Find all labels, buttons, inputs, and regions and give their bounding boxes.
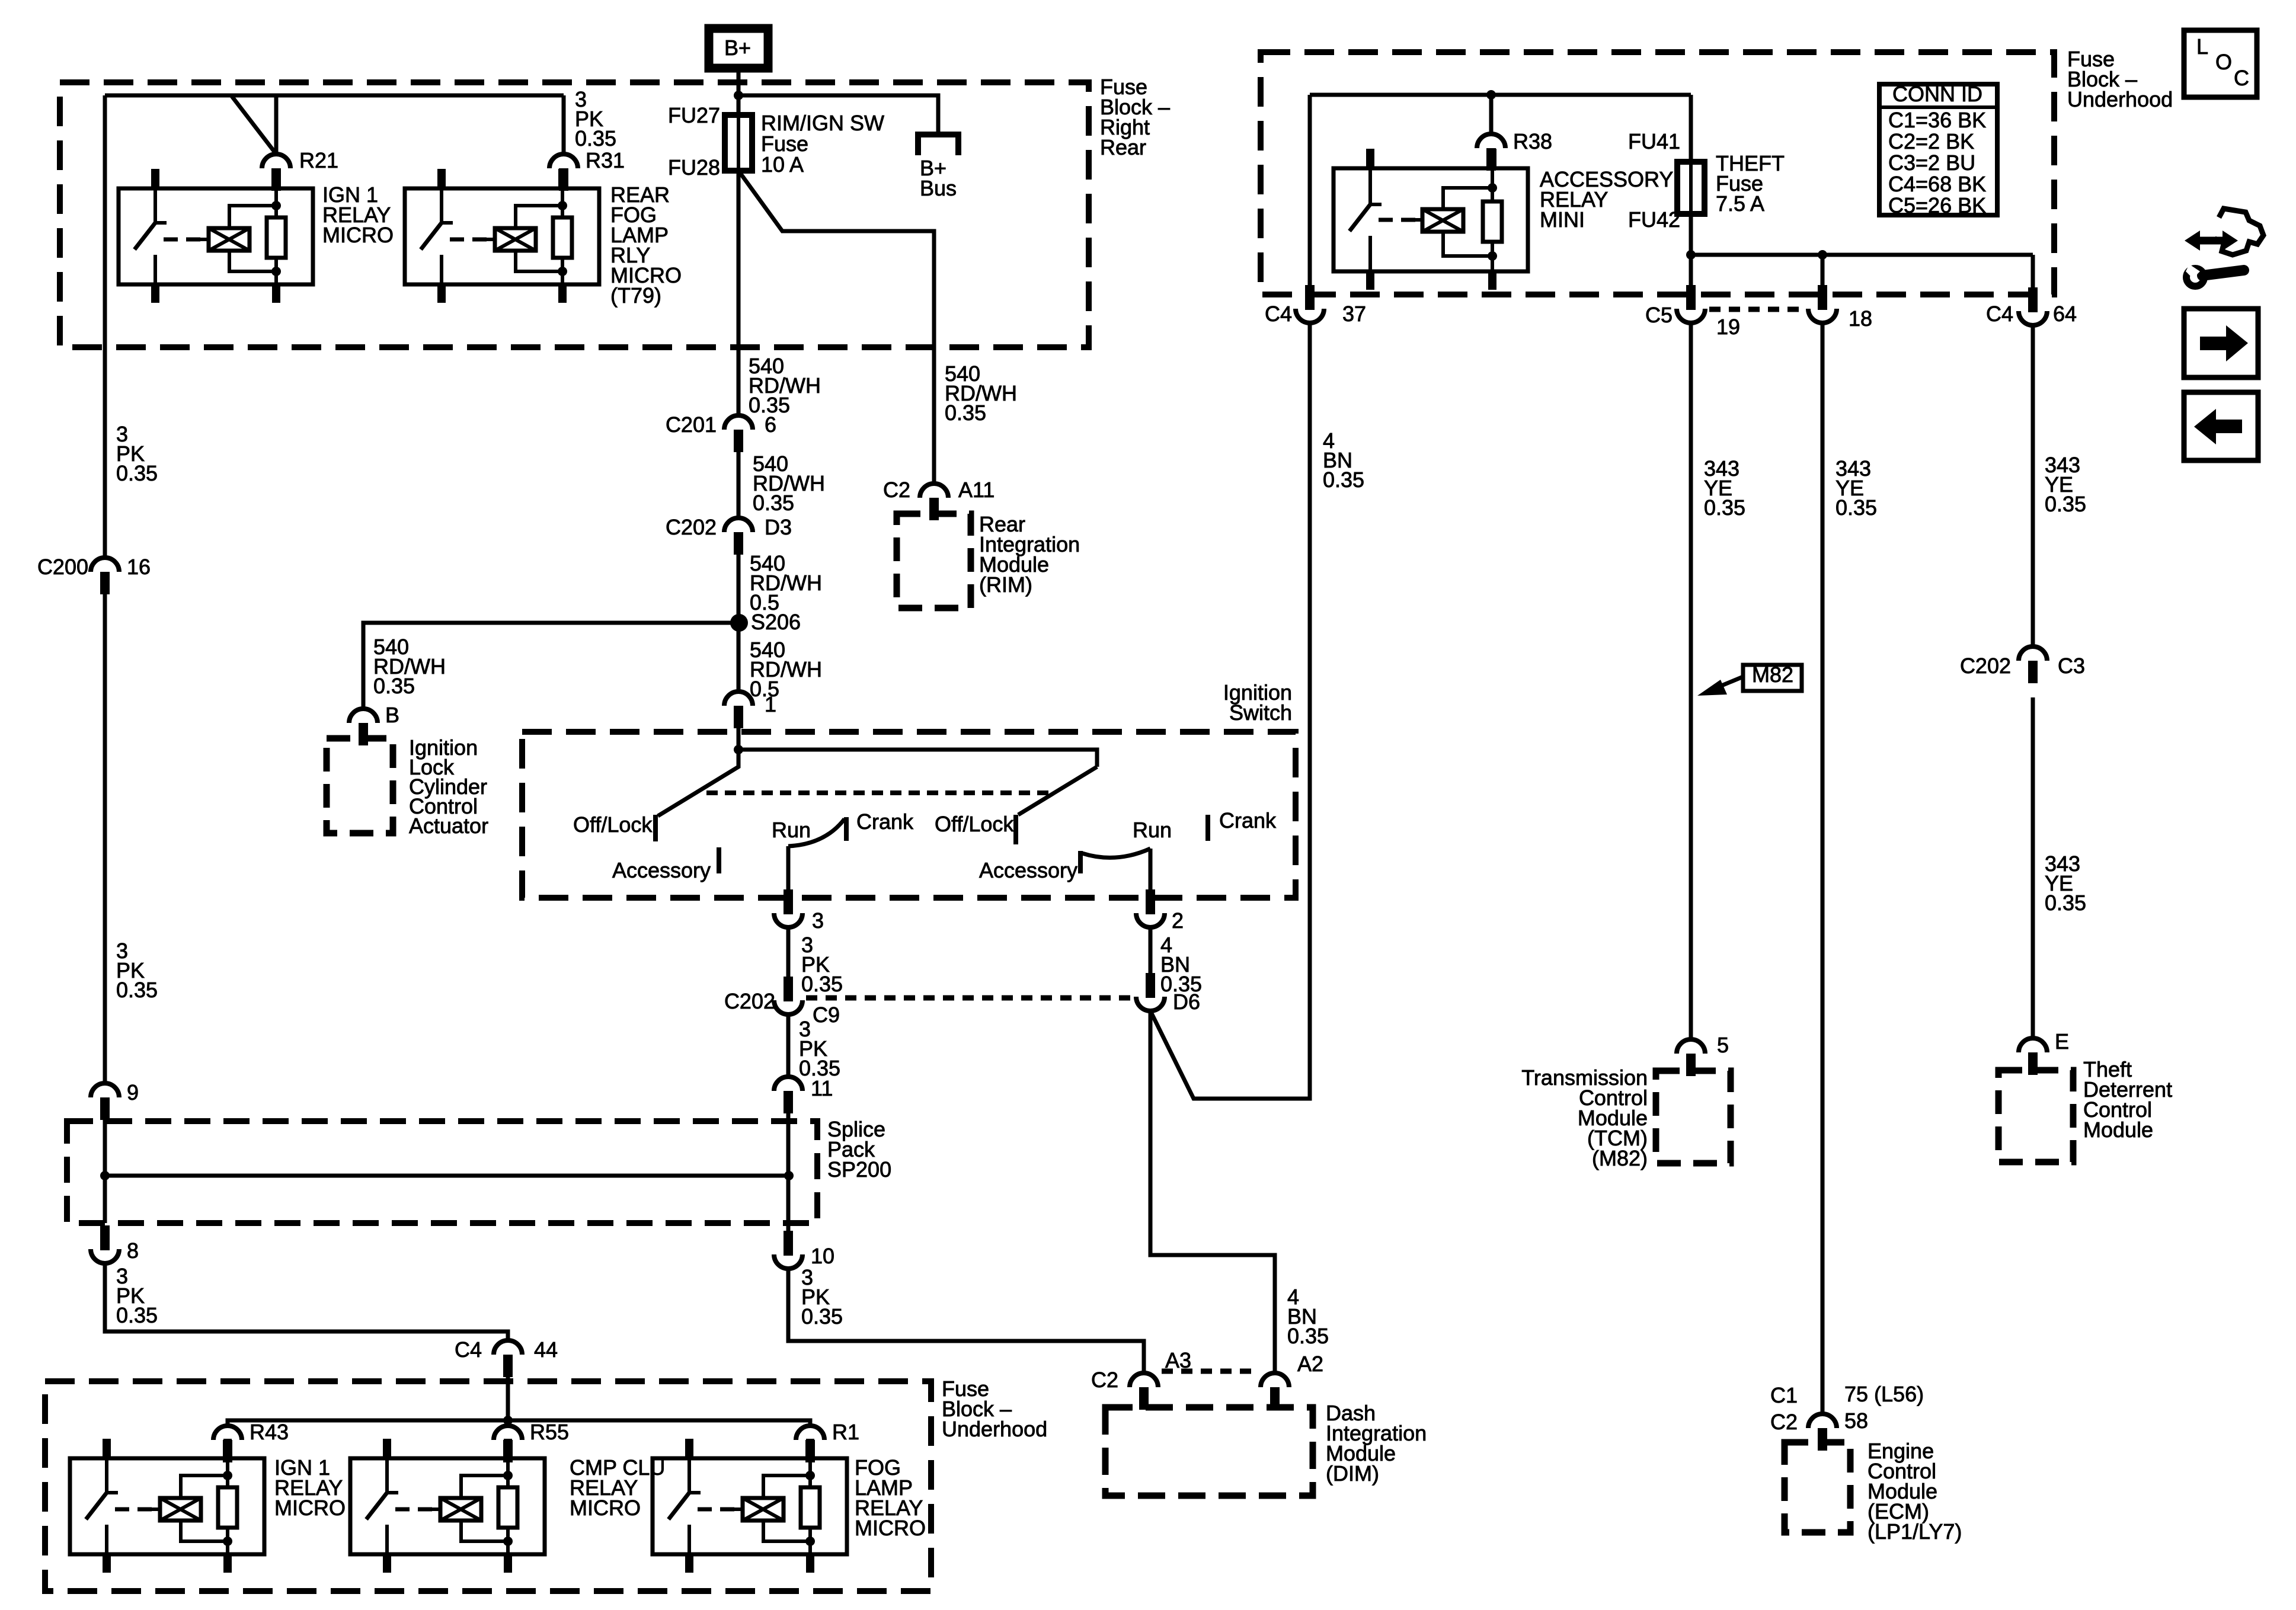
wire S206 branch to ignition lock actuator: [363, 623, 739, 709]
node theft junction 1: [1686, 250, 1696, 260]
wire diagonal to R21: [231, 95, 276, 154]
node splice junction left: [100, 1171, 110, 1180]
svg-text:0.35: 0.35: [945, 401, 986, 425]
svg-text:10: 10: [811, 1244, 834, 1268]
svg-text:R38: R38: [1513, 129, 1552, 153]
svg-text:MICRO: MICRO: [855, 1516, 926, 1540]
svg-text:C3=2 BU: C3=2 BU: [1888, 151, 1975, 175]
svg-text:C1=36 BK: C1=36 BK: [1888, 108, 1986, 132]
svg-text:C202: C202: [1960, 654, 2011, 678]
contact Off/Lock right: [1013, 815, 1018, 844]
transmission control module TCM dashed box: [1656, 1071, 1731, 1163]
svg-text:18: 18: [1849, 306, 1872, 331]
wire 2 to D6: [1149, 927, 1153, 984]
svg-text:8: 8: [127, 1238, 139, 1263]
connector R43: [213, 1426, 242, 1440]
connector 1 ignition switch: [724, 692, 753, 706]
fuse block underhood dashed box: [45, 1381, 931, 1591]
svg-text:(DIM): (DIM): [1326, 1461, 1379, 1486]
connector 5 TCM: [1677, 1039, 1705, 1054]
engine control module ECM dashed box: [1785, 1442, 1850, 1532]
fuse THEFT FU41/FU42: [1677, 162, 1705, 214]
svg-text:A11: A11: [958, 478, 994, 502]
connector R31: [549, 154, 578, 168]
svg-text:C1: C1: [1770, 1383, 1798, 1407]
mechanical linkage dotted: [706, 790, 1054, 795]
switch blade right: [1018, 767, 1097, 815]
svg-text:S206: S206: [751, 610, 801, 634]
conn id table: [1879, 84, 1997, 215]
dotted link C9-D6: [806, 996, 1133, 1001]
dotted link A3-A2: [1162, 1369, 1258, 1374]
svg-text:Run: Run: [1133, 818, 1172, 842]
svg-text:C4: C4: [1265, 302, 1292, 326]
relay CMP CLU RELAY MICRO: [350, 1458, 545, 1554]
wire 1 into switch: [737, 728, 741, 750]
svg-text:MINI: MINI: [1540, 207, 1585, 232]
arrow box left: [2184, 392, 2258, 460]
svg-text:0.35: 0.35: [1323, 468, 1364, 492]
node S-junction under B+: [734, 91, 743, 100]
svg-text:5: 5: [1717, 1033, 1729, 1057]
wire S206 down to connector 1: [737, 623, 741, 692]
svg-text:44: 44: [534, 1337, 558, 1362]
relay IGN 1 RELAY MICRO (bottom): [70, 1458, 264, 1554]
wire drop to R21: [274, 95, 279, 154]
relay ACCESSORY RELAY MINI: [1334, 168, 1528, 271]
connector C5 pin 19: [1686, 285, 1696, 310]
svg-text:0.35: 0.35: [116, 978, 158, 1002]
svg-text:D6: D6: [1173, 990, 1200, 1014]
wire fuse to junction: [1689, 214, 1693, 255]
node switch feed junction: [734, 745, 743, 754]
svg-text:Underhood: Underhood: [2067, 87, 2173, 111]
node R38 tap: [1486, 90, 1496, 100]
contact Accessory right: [1078, 851, 1083, 873]
contact Off/Lock left: [653, 815, 658, 841]
svg-text:C4: C4: [1986, 302, 2013, 326]
arrow box right: [2184, 309, 2258, 377]
svg-text:Switch: Switch: [1229, 700, 1292, 725]
svg-text:0.35: 0.35: [1835, 495, 1877, 520]
wire fuse down to C201: [737, 171, 741, 415]
node splice junction right: [784, 1171, 794, 1180]
svg-text:Accessory: Accessory: [979, 858, 1077, 882]
node bus junction at 44: [503, 1416, 513, 1425]
wire Accessory-Run curve right: [1082, 849, 1150, 857]
wire through splice pack: [786, 1113, 791, 1240]
wire drop to 64: [2031, 255, 2035, 289]
svg-text:Bus: Bus: [920, 176, 957, 200]
wire R38 drop: [1489, 95, 1494, 134]
wire B+ to junction: [737, 68, 741, 115]
wire drop to 18: [1821, 255, 1825, 286]
svg-text:FU28: FU28: [668, 155, 720, 180]
ignition lock cylinder control actuator dashed box: [327, 738, 393, 833]
connector C4 pin 37: [1305, 285, 1315, 310]
svg-text:C200: C200: [37, 555, 88, 579]
connector 2: [1146, 889, 1155, 914]
svg-text:B: B: [385, 703, 399, 727]
svg-text:C201: C201: [666, 412, 717, 437]
fuse FU27/FU28 RIM/IGN SW: [737, 95, 741, 171]
wire fuse to RIM branch: [738, 171, 934, 484]
wire D6 to A2: [1150, 1011, 1275, 1373]
svg-text:16: 16: [127, 555, 151, 579]
svg-text:0.35: 0.35: [2045, 492, 2086, 516]
contact Crank left: [844, 817, 849, 841]
connector 11 into splice pack: [774, 1077, 802, 1091]
svg-text:SP200: SP200: [827, 1157, 891, 1182]
connector pin 18: [1818, 285, 1827, 310]
svg-text:C202: C202: [724, 989, 775, 1013]
svg-text:C2: C2: [1770, 1410, 1798, 1434]
svg-text:2: 2: [1172, 908, 1184, 933]
wire 3 to C9: [786, 927, 791, 1000]
svg-text:C5: C5: [1645, 303, 1673, 327]
wire left drop to 37: [1308, 95, 1312, 286]
M82 callout box with arrow: [1743, 665, 1802, 691]
svg-text:R31: R31: [586, 148, 625, 172]
connector A2 DIM: [1261, 1373, 1289, 1387]
wire C201 to C202: [737, 452, 741, 518]
service icon zigzag outline: [2215, 209, 2263, 255]
wire Run output right: [1149, 849, 1153, 899]
wire 19 to TCM 5: [1689, 323, 1693, 1039]
svg-text:E: E: [2055, 1029, 2069, 1054]
svg-text:Actuator: Actuator: [409, 814, 488, 838]
wire 10 to A3: [788, 1269, 1144, 1373]
svg-text:C3: C3: [2058, 654, 2085, 678]
svg-text:64: 64: [2053, 302, 2077, 326]
wire 8 to C4-44: [105, 1263, 508, 1340]
relay FOG LAMP RELAY MICRO: [653, 1458, 847, 1554]
connector C202 pin C9: [784, 977, 793, 1001]
svg-text:(RIM): (RIM): [979, 572, 1032, 597]
wire drop to 19: [1689, 255, 1693, 286]
svg-text:Run: Run: [772, 818, 811, 842]
service icon wrench: [2202, 270, 2244, 276]
svg-text:19: 19: [1716, 315, 1740, 339]
LOC legend box: [2184, 30, 2257, 97]
svg-text:C2=2 BK: C2=2 BK: [1888, 129, 1974, 153]
connector C201 pin 6: [724, 415, 753, 430]
connector A3 DIM: [1130, 1373, 1158, 1387]
wire relay feed bus: [228, 1420, 810, 1426]
wire left column top: [103, 95, 107, 558]
wire C3 to E: [2031, 697, 2035, 1038]
fuse block underhood dashed box (top right): [1261, 52, 2054, 295]
svg-text:0.35: 0.35: [801, 972, 843, 996]
wire feed to B+ bus: [738, 95, 938, 132]
svg-text:Underhood: Underhood: [942, 1417, 1047, 1441]
fuse block right rear dashed box: [60, 82, 1089, 347]
wire bus to THEFT fuse: [1689, 95, 1693, 162]
connector 3: [784, 889, 793, 914]
svg-text:R55: R55: [530, 1420, 569, 1444]
svg-text:C9: C9: [813, 1003, 840, 1027]
svg-text:0.35: 0.35: [373, 674, 415, 698]
connector C202 pin D3: [724, 518, 753, 532]
relay IGN 1 RELAY MICRO (top): [119, 188, 313, 284]
svg-text:C2: C2: [883, 478, 910, 502]
svg-text:Crank: Crank: [856, 809, 914, 834]
svg-text:0.35: 0.35: [1287, 1324, 1329, 1348]
svg-text:C4=68 BK: C4=68 BK: [1888, 172, 1986, 196]
wire C9 to 11: [786, 1014, 791, 1077]
svg-text:D3: D3: [765, 515, 792, 539]
svg-text:58: 58: [1844, 1409, 1868, 1433]
wire bus drop R55: [506, 1420, 510, 1426]
svg-text:MICRO: MICRO: [274, 1496, 346, 1520]
rear integration module RIM dashed box: [897, 514, 971, 608]
wire 44 to bus: [506, 1377, 510, 1420]
switch blade left: [658, 750, 738, 816]
svg-text:O: O: [2215, 50, 2232, 74]
svg-text:9: 9: [127, 1080, 139, 1105]
connector 8 below splice: [100, 1225, 110, 1250]
connector B ignition lock: [349, 709, 378, 723]
splice pack SP200 dashed box: [67, 1121, 817, 1223]
svg-text:Off/Lock: Off/Lock: [935, 812, 1014, 836]
svg-text:CONN ID: CONN ID: [1892, 82, 1982, 106]
wire top bus inside fuse block: [105, 94, 564, 98]
svg-text:C202: C202: [666, 515, 717, 539]
svg-text:MICRO: MICRO: [322, 223, 394, 247]
dotted link 19-18: [1709, 307, 1803, 312]
svg-text:B+: B+: [724, 36, 751, 60]
svg-text:0.35: 0.35: [116, 1303, 158, 1327]
svg-text:6: 6: [765, 412, 776, 437]
wire theft distribution: [1691, 253, 2033, 257]
svg-text:C: C: [2234, 66, 2249, 90]
svg-text:11: 11: [811, 1076, 833, 1100]
svg-text:(M82): (M82): [1592, 1146, 1648, 1170]
connector R21: [262, 154, 290, 168]
svg-text:Module: Module: [2083, 1118, 2153, 1142]
svg-text:L: L: [2196, 34, 2208, 59]
dash integration module DIM dashed box: [1105, 1407, 1313, 1496]
svg-text:(LP1/LY7): (LP1/LY7): [1868, 1519, 1962, 1544]
svg-text:0.35: 0.35: [801, 1304, 843, 1329]
svg-text:0.35: 0.35: [753, 491, 794, 515]
connector R38: [1477, 134, 1505, 148]
connector E theft module: [2019, 1038, 2047, 1052]
svg-text:Crank: Crank: [1219, 808, 1277, 833]
connector R55: [494, 1426, 522, 1440]
wire Run output left: [786, 846, 791, 899]
svg-text:3: 3: [812, 908, 824, 933]
relay REAR FOG LAMP RLY MICRO T79: [405, 188, 599, 284]
theft deterrent control module dashed box: [1998, 1070, 2073, 1162]
svg-text:FU41: FU41: [1628, 129, 1680, 153]
svg-text:7.5 A: 7.5 A: [1716, 191, 1764, 216]
connector 10 below splice: [784, 1231, 793, 1256]
connector C200 pin 16: [91, 558, 119, 572]
svg-text:MICRO: MICRO: [570, 1496, 641, 1520]
connector D6: [1146, 973, 1155, 998]
contact Crank right: [1205, 815, 1210, 841]
svg-text:Rear: Rear: [1100, 135, 1146, 159]
ignition switch dashed box: [522, 732, 1296, 898]
svg-text:FU27: FU27: [668, 103, 720, 127]
svg-text:Accessory: Accessory: [612, 858, 711, 882]
connector C4 pin 64: [2028, 287, 2038, 312]
wire inside splice left: [103, 1120, 107, 1223]
svg-text:Off/Lock: Off/Lock: [573, 812, 653, 837]
svg-text:A2: A2: [1297, 1352, 1323, 1376]
svg-text:R43: R43: [250, 1420, 289, 1444]
connector 58 ECM: [1808, 1414, 1837, 1428]
contact Accessory left: [717, 847, 721, 873]
svg-text:R1: R1: [832, 1420, 859, 1444]
wire drop to R31: [562, 95, 566, 154]
svg-text:10 A: 10 A: [761, 152, 804, 177]
node splice S206: [730, 614, 748, 632]
svg-text:0.35: 0.35: [575, 126, 616, 151]
connector C4 pin 44: [494, 1340, 522, 1355]
svg-text:R21: R21: [299, 148, 338, 172]
svg-text:0.35: 0.35: [116, 461, 158, 485]
connector 9 into splice pack: [91, 1083, 119, 1097]
svg-text:1: 1: [765, 692, 776, 716]
node theft junction 2: [1818, 250, 1827, 260]
wire C4-37 branch joining D6: [1150, 323, 1310, 1099]
wire D3 to S206: [737, 555, 741, 623]
svg-text:0.35: 0.35: [2045, 891, 2086, 915]
wire 18 to ECM 58: [1821, 323, 1825, 1414]
wire splice bus SP200: [105, 1174, 789, 1178]
svg-text:FU42: FU42: [1628, 207, 1680, 232]
svg-text:(T79): (T79): [610, 283, 661, 308]
svg-text:C2: C2: [1091, 1368, 1118, 1392]
svg-text:0.35: 0.35: [1704, 495, 1745, 520]
service icon double arrow: [2193, 237, 2230, 245]
connector C202 pin C3: [2019, 646, 2047, 661]
svg-text:C5=26 BK: C5=26 BK: [1888, 193, 1986, 217]
wire top-right bus: [1310, 93, 1691, 97]
wire Run-Crank curve left: [788, 819, 845, 846]
B+ Bus bar symbol: [918, 135, 958, 155]
wire C200 to connector 9: [103, 594, 107, 1083]
svg-text:37: 37: [1342, 302, 1366, 326]
power B+ terminal box: [709, 28, 768, 68]
wire 64 to C202 C3: [2031, 325, 2035, 646]
connector R1: [796, 1426, 824, 1440]
svg-text:C4: C4: [455, 1337, 482, 1362]
wire switch feed crossbar: [738, 750, 1097, 767]
svg-text:M82: M82: [1752, 662, 1793, 687]
connector C2 pin A11 RIM: [920, 484, 948, 498]
svg-text:75 (L56): 75 (L56): [1844, 1382, 1924, 1406]
